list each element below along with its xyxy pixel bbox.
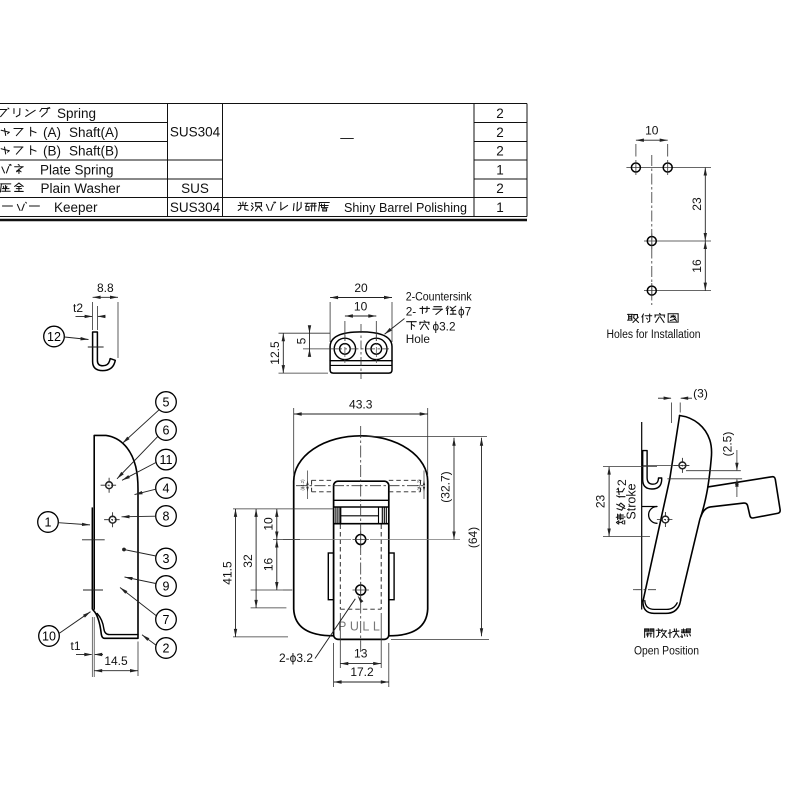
open view panel line [641,422,643,610]
shaft centerline horizontal [296,485,426,487]
hidden mounting outline dashed [339,525,341,610]
dimension 10 front [276,509,278,540]
side view body profile [93,435,138,638]
dimension 13 [339,613,341,668]
svg-text:1: 1 [496,163,504,178]
front view body outline [294,436,428,636]
hole centerline row 1 [626,167,711,169]
dimension 20 [329,302,331,342]
keeper J-hook section detail [93,332,116,371]
svg-text:7: 7 [163,613,170,627]
balloon 5 [156,392,177,413]
balloon 11 leader [122,463,156,481]
table row 1: Spring [0,107,50,116]
svg-text:3: 3 [163,552,170,566]
open view stroke line [643,464,689,466]
svg-text:16: 16 [261,558,275,572]
centerlines of keeper detail [360,324,362,379]
svg-text:Spring: Spring [57,106,96,121]
countersunk hole right [366,338,387,359]
balloon 10 [39,626,60,647]
dimension t1 [91,617,93,677]
svg-text:23: 23 [690,197,704,211]
dimension 41.5 [235,509,237,637]
svg-text:13: 13 [354,647,368,661]
svg-text:(3): (3) [693,387,708,401]
balloon 12 leader [65,337,89,340]
svg-text:SUS304: SUS304 [170,125,221,140]
svg-text:8: 8 [163,509,170,523]
svg-text:SUS: SUS [181,181,209,196]
hole centerline gray upper [283,539,351,541]
side view centerline tick upper [82,539,105,541]
svg-text:12.5: 12.5 [268,341,282,365]
svg-text:8.8: 8.8 [97,281,114,295]
svg-text:SUS304: SUS304 [170,200,221,215]
svg-text:2-Countersink: 2-Countersink [406,290,472,304]
balloon 2 leader [142,635,156,645]
open view latch dome edge [680,416,712,601]
hole centerline row 3 [644,290,711,292]
open view bottom foot outer [643,600,681,613]
dimension 10 installation [635,144,637,157]
caption holes for installation [627,313,678,322]
svg-text:(32.7): (32.7) [439,471,453,502]
balloon 8 [156,506,177,527]
open view bottom foot inner [645,601,677,610]
svg-text:11: 11 [160,453,173,467]
svg-text:Shiny Barrel Polishing: Shiny Barrel Polishing [344,200,467,215]
svg-text:10: 10 [261,517,275,531]
keeper plate upper line [334,499,389,501]
svg-text:Hole: Hole [406,332,431,346]
svg-text:(64): (64) [466,527,480,548]
dimension (32.7) [453,438,455,540]
svg-text:Plate Spring: Plate Spring [40,163,114,178]
dimension 14.5 [137,642,139,677]
balloon 1 [38,512,59,533]
open view keeper hook [643,451,662,489]
table row 6: Keeper [0,202,39,211]
front hole upper [356,535,366,545]
extension line hole1 [273,539,300,541]
plate spring hatch right [381,507,383,524]
balloon 12 [44,326,65,347]
svg-text:2-: 2- [406,305,417,319]
balloon 8 leader [122,515,156,518]
dimension 23 open view [603,466,657,468]
front hole lower [356,585,366,595]
svg-text:ϕ3.2: ϕ3.2 [433,320,456,334]
plate spring section bottom [334,523,389,525]
hole centerline gray lower [283,589,293,591]
countersunk hole left [334,338,355,359]
svg-text:16: 16 [690,259,704,273]
dimension 5 [303,348,333,350]
svg-text:1: 1 [45,515,52,529]
svg-text:23: 23 [594,495,608,509]
svg-text:ϕ7: ϕ7 [458,305,471,319]
balloon 1 leader [58,523,90,525]
svg-text:Keeper: Keeper [54,200,98,215]
svg-text:1: 1 [496,200,504,215]
dimension 16 front [276,540,278,591]
svg-text:Holes for Installation: Holes for Installation [607,329,701,341]
tiny shaft dia dim right [423,480,425,485]
svg-text:20: 20 [354,281,368,295]
svg-text:17.2: 17.2 [350,665,374,679]
svg-text:PULL: PULL [338,620,383,634]
balloon 11 [156,449,177,470]
mounting hole top-left [631,163,640,172]
dimension 32 [255,509,257,608]
extension line plate bottom left [233,636,288,638]
svg-text:9: 9 [163,579,170,593]
mounting hole bottom [647,286,656,295]
balloon 6 leader [117,436,158,478]
open view spring loop arc [649,507,657,524]
extension line spring top [233,508,334,510]
dimension 16 installation [704,241,706,291]
svg-text:(A): (A) [43,125,61,140]
balloon 10 leader [59,612,91,634]
table row 5: Plain Washer [0,183,23,192]
balloon 7 [156,609,177,630]
svg-text:Plain Washer: Plain Washer [41,181,121,196]
balloon 4 [156,478,177,499]
open view lever arm [701,477,780,518]
keeper plate top view outline [330,332,392,361]
open view (2.5) ref line upper [686,470,741,472]
svg-text:2-ϕ3.2: 2-ϕ3.2 [279,651,313,665]
balloon 3 leader [124,550,156,557]
mounting hole middle [647,237,656,246]
side tab right [389,553,394,600]
caption open position [645,629,691,638]
side tab left [328,553,333,600]
dimension 12.5 [279,332,331,334]
side view foot inner line [97,614,138,635]
balloon 6 [156,420,177,441]
plate spring hatch left [335,507,337,524]
open view (2.5) ref line lower [667,478,742,480]
svg-text:5: 5 [295,337,309,344]
balloon 4 leader [135,489,156,494]
balloon 9 leader [125,577,156,584]
svg-text:6: 6 [163,423,170,437]
pivot dash-dot mark open view [633,589,657,591]
svg-text:10: 10 [354,300,368,314]
keeper plate flange [330,361,392,373]
table row 4: Plate Spring [0,164,23,173]
dimension t2 [96,306,98,330]
dimension 43.3 [293,408,295,476]
table row 2: Shaft (A) [0,127,36,136]
dimension 8.8 [92,302,94,330]
svg-text:2: 2 [496,106,504,121]
svg-text:10: 10 [42,629,56,643]
svg-text:Stroke: Stroke [625,483,639,519]
svg-text:43.3: 43.3 [349,398,373,412]
dimension 23 installation [704,168,706,242]
svg-text:Shaft(A): Shaft(A) [69,125,119,140]
side view shaft B target [104,519,121,521]
svg-text:(ϕ4.2): (ϕ4.2) [300,479,305,491]
hidden keeper bar dashed left [312,479,334,481]
dimension (3) [671,403,673,424]
extension line hole2 [251,589,292,591]
hole centerline row 2 [644,240,711,242]
balloon 5 leader [123,410,160,444]
svg-text:2: 2 [496,125,504,140]
svg-text:2: 2 [496,144,504,159]
balloon 7 leader [120,588,156,616]
dimension 10 top detail [344,321,346,341]
tiny shaft dia dim left [306,480,308,485]
svg-text:t1: t1 [70,639,80,653]
svg-text:4: 4 [163,481,170,495]
open view shaft A target [674,464,691,466]
svg-text:5: 5 [163,395,170,409]
dimension (2.5) [736,450,738,470]
dimension 17.2 [333,643,335,687]
table bottom thick border [0,219,527,222]
dimension (64) [481,438,483,637]
plate spring inner box [340,507,342,524]
vertical centerline front view [360,426,362,652]
countersink note leader [385,319,405,335]
balloon 9 [156,576,177,597]
extension line y608 [251,607,287,609]
svg-text:(B): (B) [43,144,61,159]
hidden keeper bar dashed right [389,479,421,481]
open view shaft B target [657,519,674,521]
svg-text:41.5: 41.5 [221,561,235,585]
svg-text:—: — [340,130,354,145]
table row 3: Shaft (B) [0,146,36,155]
hook section tick [88,346,104,348]
extension line 64 bottom [391,638,489,640]
svg-text:2: 2 [496,181,504,196]
svg-text:t2: t2 [73,301,83,315]
svg-text:2: 2 [163,641,170,655]
side view shaft A target [101,484,118,486]
parts table grid [167,104,169,217]
stroke label japanese [615,479,629,524]
svg-text:10: 10 [645,124,659,138]
svg-text:14.5: 14.5 [104,654,128,668]
plate spring section top [334,506,389,508]
svg-text:32: 32 [241,554,255,568]
balloon 2 [156,638,177,659]
mounting hole top-right [663,163,672,172]
svg-text:Open Position: Open Position [634,644,699,658]
svg-text:(ϕ4.2): (ϕ4.2) [416,479,421,491]
svg-text:(2.5): (2.5) [721,432,735,457]
balloon 3 [156,548,177,569]
svg-text:Shaft(B): Shaft(B) [69,144,119,159]
side view keeper plate edge [91,507,93,609]
front view keeper plate [334,481,389,639]
svg-text:12: 12 [47,330,61,344]
extension line top reference [363,436,487,438]
open view latch left edge [643,416,680,602]
installation holes centerline [651,155,653,305]
side view centerline tick lower [83,589,103,591]
